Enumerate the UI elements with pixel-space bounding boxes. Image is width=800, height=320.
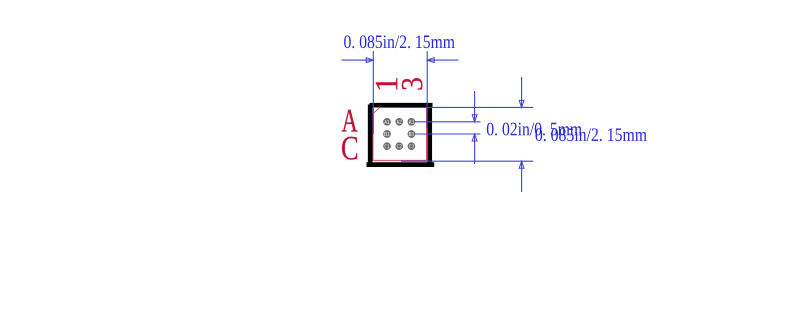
pad C1 xyxy=(383,142,391,150)
pad B1 xyxy=(383,130,391,138)
pad A2 xyxy=(395,118,403,126)
extension line right (top dim) xyxy=(426,51,428,129)
dimension arrow right (top dim) xyxy=(427,58,458,63)
pad B3 xyxy=(408,130,416,138)
leader line pad A3 xyxy=(415,121,481,123)
extension line left (top dim) xyxy=(372,51,374,134)
dimension text right 2: 0.085in/2.15mm xyxy=(536,128,647,141)
leader line package top edge xyxy=(400,106,533,108)
red fab outline with pin-1 chamfer xyxy=(373,108,426,161)
leader line package bottom edge xyxy=(401,160,533,162)
outer dim arrow stub top (0.085in vertical) xyxy=(519,77,524,107)
inner dim arrow stub top (0.02in) xyxy=(472,91,477,122)
column label 3 (red, rotated) xyxy=(402,78,423,89)
package body outline (black, 4 thick strokes) xyxy=(367,104,435,167)
column label 1 (red, rotated) xyxy=(376,78,397,89)
pad C2 xyxy=(395,142,403,150)
outer dim arrow stub bottom (0.085in vertical) xyxy=(519,161,524,192)
row label C (red) xyxy=(342,137,357,160)
pad A3 xyxy=(408,118,416,126)
dimension text right 1: 0.02in/0.5mm xyxy=(487,123,582,136)
row label A (red) xyxy=(342,110,358,132)
dimension text top: 0.085in/2.15mm xyxy=(344,35,455,48)
inner dim arrow stub bottom (0.02in) xyxy=(472,134,477,164)
pad C3 xyxy=(408,142,416,150)
dimension arrow left (top dim) xyxy=(342,58,374,63)
pad A1 xyxy=(383,118,391,126)
leader line pad B3 xyxy=(415,133,481,135)
